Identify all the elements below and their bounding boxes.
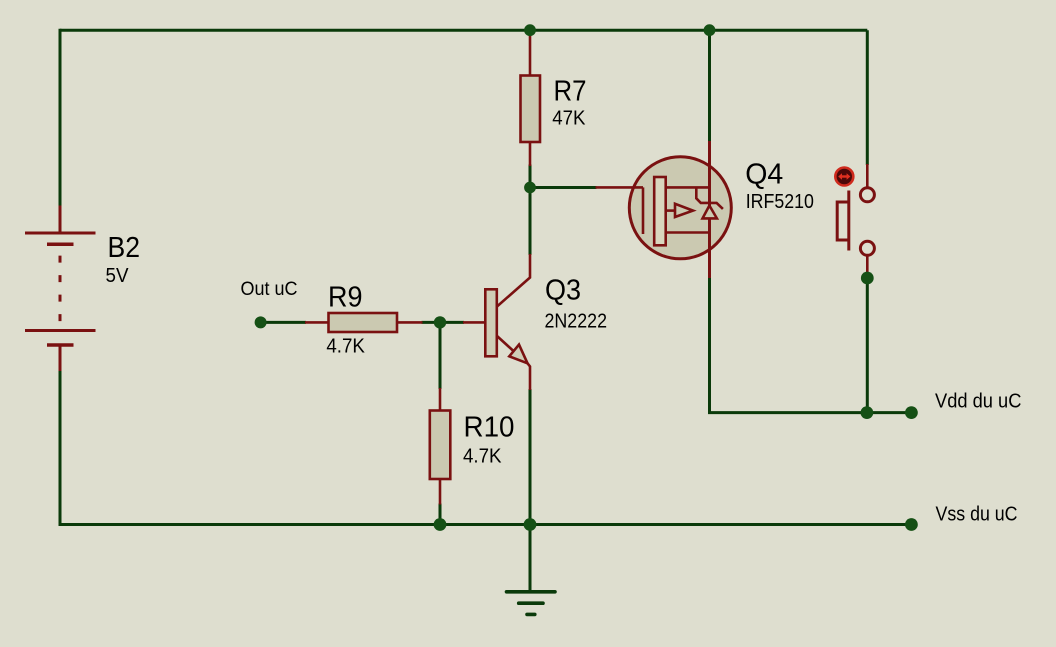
pin: R10 top (439, 388, 442, 412)
plate: short top (47, 242, 74, 246)
plate: long bottom (25, 329, 96, 332)
svg-text:4.7K: 4.7K (326, 336, 365, 358)
transistor Q3 (463, 254, 530, 390)
terminal: Vdd du uC (905, 406, 918, 419)
pin: battery bottom (59, 345, 62, 371)
base bar (485, 289, 497, 356)
wire: top bus corner down to pushbutton (866, 30, 869, 165)
MOSFET Q4 (596, 141, 732, 278)
wire: Q3 emitter down to Vss (529, 389, 532, 525)
wire: ground stem (529, 525, 532, 592)
svg-text:Out uC: Out uC (241, 279, 298, 300)
svg-text:4.7K: 4.7K (463, 445, 502, 467)
pin: emitter (528, 363, 531, 390)
emitter lead (497, 336, 514, 352)
svg-text:B2: B2 (108, 232, 141, 264)
resistor R9 (305, 313, 423, 332)
channel tap: bottom (666, 231, 710, 234)
wire: top power bus (60, 29, 867, 32)
junction: Vdd line / pushbutton (861, 406, 874, 419)
substrate arrow (675, 204, 693, 217)
pin: R10 bottom (439, 478, 442, 505)
ground symbol (507, 592, 556, 615)
channel bar (654, 177, 666, 245)
wire: gate junction to MOSFET gate (530, 186, 597, 189)
wire: MOSFET source down and right to Vdd terminal (710, 278, 912, 413)
svg-text:Vss du uC: Vss du uC (936, 503, 1018, 525)
pushbutton SW (835, 164, 874, 278)
dashed link between cells (59, 256, 62, 330)
svg-text:Q4: Q4 (745, 159, 783, 191)
pin: gate (596, 186, 644, 189)
pin: button bottom (866, 256, 869, 278)
pin: R9 left (305, 321, 330, 324)
channel tap: top (666, 186, 710, 189)
battery B2 (25, 206, 96, 372)
resistor R10 (430, 388, 451, 505)
actuator bracket (837, 202, 849, 240)
wire: top bus to MOSFET drain (708, 30, 711, 142)
actuator arrow (841, 175, 849, 177)
pin: base (463, 321, 486, 324)
terminal: Vss du uC (905, 518, 918, 531)
wire: base junction down to R10 (439, 322, 442, 389)
wire: Out uC terminal to R9 (261, 321, 306, 324)
svg-text:R9: R9 (328, 282, 363, 314)
junction: ground / Vss (524, 518, 537, 531)
svg-text:R10: R10 (464, 412, 515, 444)
resistor R7 (521, 32, 541, 167)
body diode triangle (703, 206, 717, 219)
wire: R7 bottom to gate junction (529, 165, 532, 188)
gate electrode (642, 187, 645, 234)
pin: button top (866, 164, 869, 187)
svg-text:IRF5210: IRF5210 (746, 191, 814, 213)
body circle (629, 157, 731, 259)
contact bar (847, 191, 850, 251)
plate: short bottom (47, 343, 74, 347)
svg-text:5V: 5V (106, 265, 130, 287)
pin: R7 bottom (529, 141, 532, 166)
wire: left rail lower + Vss bus (60, 370, 911, 525)
pin: battery top (59, 206, 62, 235)
substrate lead (666, 209, 675, 212)
body R7 (521, 76, 541, 143)
body diode cathode (696, 187, 723, 209)
emitter arrow (509, 345, 527, 364)
svg-text:47K: 47K (552, 108, 586, 130)
pin: R7 top (529, 32, 532, 77)
junction: below pushbutton (861, 272, 874, 285)
svg-text:2N2222: 2N2222 (545, 310, 608, 332)
terminal: Out uC (255, 316, 267, 328)
pin: R9 right (396, 321, 423, 324)
junction: base node (434, 316, 446, 328)
svg-text:Q3: Q3 (545, 274, 581, 306)
drain-source internal vertical (708, 141, 711, 278)
actuator ball (835, 168, 853, 186)
wire: R9 to base junction (422, 321, 465, 324)
junction: R7 / top bus (524, 24, 536, 36)
junction: gate node (524, 182, 536, 194)
wire: R10 bottom to Vss (439, 504, 442, 525)
junction: drain branch / top bus (704, 24, 716, 36)
svg-text:R7: R7 (554, 76, 587, 108)
wire: gate junction down to Q3 collector (529, 188, 532, 256)
body R10 (430, 411, 451, 480)
collector lead (497, 254, 530, 307)
terminal ring bottom (860, 241, 874, 255)
terminal ring top (860, 188, 874, 202)
plate: long top (25, 232, 96, 235)
wire: pushbutton bottom to Vdd line (866, 278, 869, 413)
wire: left rail upper (bus to battery +) (59, 29, 62, 207)
junction: R10 / Vss (434, 518, 447, 531)
body R9 (329, 313, 398, 332)
svg-text:Vdd du uC: Vdd du uC (935, 391, 1021, 413)
